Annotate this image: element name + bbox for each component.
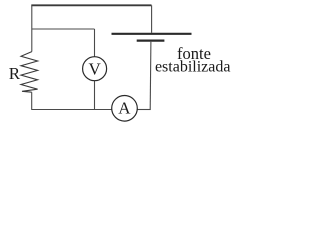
- svg-text:A: A: [118, 99, 131, 118]
- svg-text:V: V: [88, 60, 101, 79]
- svg-text:estabilizada: estabilizada: [155, 59, 231, 76]
- svg-text:R: R: [9, 64, 21, 83]
